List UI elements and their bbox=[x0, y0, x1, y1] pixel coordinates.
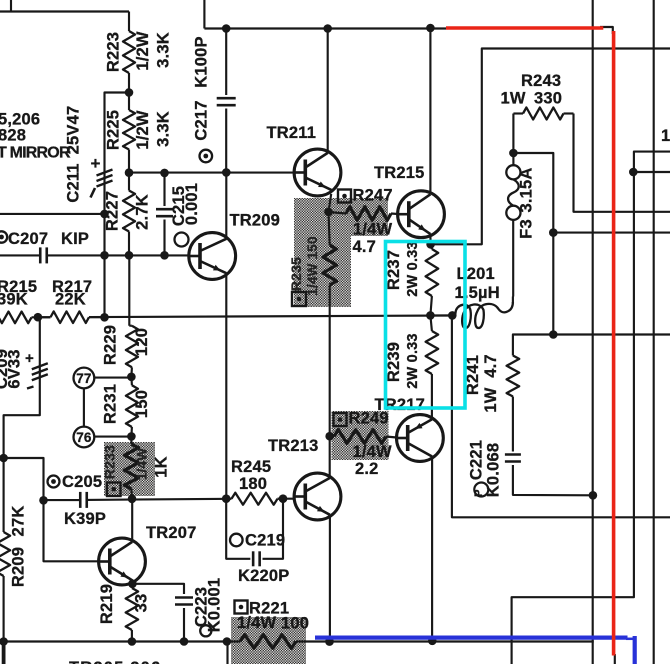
node dot R209 top / C205 branch bbox=[0, 454, 8, 463]
wire bottom emitter rail (y=641.5) bbox=[0, 640, 594, 642]
svg-text:R245: R245 bbox=[231, 458, 271, 476]
node dot R249 left bbox=[325, 432, 334, 441]
svg-text:K0.001: K0.001 bbox=[206, 578, 224, 632]
wire C223 bottom lead bbox=[183, 608, 185, 642]
wire C207 left lead bbox=[0, 254, 40, 256]
resistor R223 (1/2W 3.3K) bbox=[105, 31, 173, 93]
wire TR209 emitter drop bbox=[225, 274, 227, 499]
svg-text:C211: C211 bbox=[65, 163, 83, 202]
transistor TR211 bbox=[267, 124, 341, 196]
svg-text:TR213: TR213 bbox=[268, 437, 319, 455]
svg-text:K39P: K39P bbox=[64, 510, 106, 528]
svg-text:2.7K: 2.7K bbox=[134, 194, 152, 230]
svg-text:1/4W: 1/4W bbox=[135, 448, 150, 480]
wire TR207 base limb bbox=[44, 500, 99, 561]
wire fuse-top to bus bbox=[513, 153, 553, 335]
node dot y=255 x=104.5 bbox=[100, 251, 109, 260]
svg-text:TR211: TR211 bbox=[267, 124, 317, 142]
halftone highlight block for resistor R235 bbox=[294, 198, 388, 307]
resistor R217 (22K) bbox=[38, 278, 105, 323]
resistor R247 (1/4W 4.7) highlighted bbox=[329, 207, 398, 221]
text fragment 5,206 bbox=[0, 111, 40, 129]
text fragment T MIRROR bbox=[0, 145, 71, 162]
transistor TR209 bbox=[189, 212, 280, 280]
resistor R215 (39K) bbox=[0, 278, 37, 323]
svg-text:1.5µH: 1.5µH bbox=[455, 284, 500, 302]
node dot R231/R233 junction bbox=[127, 432, 136, 441]
svg-text:2W 0.33: 2W 0.33 bbox=[405, 241, 421, 296]
wire R241-C221 link bbox=[512, 397, 514, 452]
wire TR213 collector column bbox=[329, 316, 331, 477]
wire rail y=334.5 bbox=[553, 333, 670, 335]
text fragment TR205,206 bottom bbox=[69, 659, 161, 664]
wire base rail TR211 (y=172.5) bbox=[129, 172, 294, 174]
wire C205 branch bbox=[4, 458, 44, 500]
svg-text:TR209: TR209 bbox=[230, 212, 281, 230]
node dot bottom R219 bbox=[128, 637, 137, 646]
svg-text:R229: R229 bbox=[102, 325, 120, 365]
svg-text:R239: R239 bbox=[385, 342, 403, 382]
svg-text:150: 150 bbox=[133, 390, 151, 418]
svg-text:TR215: TR215 bbox=[374, 164, 425, 182]
node dot C221 to bus bbox=[589, 491, 598, 500]
svg-text:F3: F3 bbox=[518, 219, 536, 239]
wire R227-R229 link bbox=[128, 255, 130, 325]
resistor R243 (1W 330) bbox=[501, 72, 574, 153]
node dot TR215 collector rail bbox=[426, 24, 435, 33]
wire black stub below red vertical bbox=[614, 654, 616, 664]
wire right rail y=172 bbox=[633, 171, 670, 173]
fuse F3 (3.15A) bbox=[506, 153, 535, 239]
node dot bus y=334.5 bbox=[549, 330, 558, 339]
wire rail y=232.6 bbox=[553, 232, 670, 234]
halftone highlight block for resistor R221 bbox=[231, 617, 306, 664]
svg-text:180: 180 bbox=[239, 475, 267, 493]
node dot bottom x=3.6 bbox=[0, 637, 8, 646]
resistor R233 (1/4W 1K) highlighted bbox=[102, 436, 171, 498]
wire node76 link bbox=[95, 436, 132, 438]
node dot TR211 collector top bbox=[323, 24, 332, 33]
node dot x=633.9 y=172 bbox=[629, 168, 638, 177]
resistor R245 (180) bbox=[226, 458, 283, 505]
label R249 bbox=[334, 410, 393, 479]
svg-text:3.3K: 3.3K bbox=[155, 111, 173, 147]
connector node 76 bbox=[74, 427, 95, 448]
wire right rail y=151.6 with branch x=633.9 bbox=[512, 152, 670, 664]
wire R243 right lead rail bbox=[574, 114, 670, 212]
node dot bottom C223 bbox=[180, 637, 189, 646]
svg-text:+: + bbox=[91, 154, 101, 173]
wire stub below x=227 bbox=[226, 642, 228, 664]
resistor R229 (120) bbox=[102, 325, 152, 377]
highlight cyan box around R237/R239 bbox=[386, 242, 466, 409]
wire output rail top (y=48.5) bbox=[434, 49, 670, 245]
svg-text:K100P: K100P bbox=[192, 36, 210, 87]
svg-text:K220P: K220P bbox=[238, 567, 289, 585]
resistor R221 (1/4W 100) highlighted bbox=[235, 600, 310, 649]
svg-text:27K: 27K bbox=[10, 506, 28, 537]
svg-text:0.001: 0.001 bbox=[183, 183, 201, 225]
svg-text:+: + bbox=[25, 350, 34, 367]
svg-text:K0.068: K0.068 bbox=[485, 443, 503, 497]
node dot fuse/R243 junction bbox=[509, 149, 518, 158]
svg-text:2W 0.33: 2W 0.33 bbox=[405, 333, 421, 388]
wire TR215 collector bbox=[429, 28, 431, 194]
svg-text:828: 828 bbox=[0, 127, 26, 145]
wire TR213 emitter drop bbox=[329, 516, 331, 641]
svg-text:TR207: TR207 bbox=[146, 524, 197, 542]
halftone highlight block for resistor R233 bbox=[104, 442, 155, 496]
svg-text:1/2W: 1/2W bbox=[134, 110, 152, 150]
wire node77 link bbox=[94, 377, 132, 379]
svg-text:R243: R243 bbox=[521, 72, 561, 90]
wire TR207 emitter stub bbox=[132, 581, 134, 584]
svg-text:R237: R237 bbox=[385, 250, 403, 290]
svg-text:KIP: KIP bbox=[61, 230, 89, 248]
svg-text:R219: R219 bbox=[98, 584, 116, 624]
wire bus vertical B (x=653.7) bbox=[653, 0, 655, 664]
node dot R245 left / TR209 emitter bbox=[222, 494, 231, 503]
wire TR217 collector drop bbox=[431, 458, 433, 641]
wire TR217 emitter link (R239 bottom) bbox=[431, 374, 433, 418]
node dot bottom x=227 bbox=[223, 637, 232, 646]
halftone highlight block for resistor R249 bbox=[332, 411, 389, 460]
svg-text:C219: C219 bbox=[245, 532, 285, 550]
wire top rail to red trace bbox=[204, 0, 446, 29]
svg-text:R225: R225 bbox=[105, 110, 123, 150]
highlight blue trace bottom bbox=[315, 636, 635, 664]
svg-text:R233: R233 bbox=[102, 445, 118, 479]
svg-text:T MIRROR: T MIRROR bbox=[0, 145, 71, 162]
wire C223 top limb bbox=[132, 584, 184, 594]
capacitor C217 (K100P) bbox=[192, 29, 235, 173]
svg-text:1W: 1W bbox=[661, 127, 670, 145]
svg-text:1/2W: 1/2W bbox=[134, 31, 152, 71]
resistor R219 (33) bbox=[98, 584, 151, 630]
capacitor C221 (K0.068) bbox=[467, 440, 521, 497]
capacitor C205 (K39P) bbox=[48, 473, 107, 528]
svg-text:R223: R223 bbox=[105, 32, 123, 72]
wire output sense drop (x=451.9) bbox=[452, 315, 670, 517]
node dot C215 top bbox=[160, 169, 169, 178]
svg-text:77: 77 bbox=[76, 371, 91, 386]
svg-text:1W: 1W bbox=[482, 387, 500, 412]
resistor R249 (1/4W 2.2) highlighted bbox=[330, 430, 397, 444]
node dot x=104.5 y=317 bbox=[100, 313, 109, 322]
highlight red trace bbox=[446, 28, 614, 656]
node dot L201 branch bbox=[448, 311, 457, 320]
svg-text:100: 100 bbox=[281, 615, 309, 633]
transistor TR215 bbox=[374, 164, 444, 238]
svg-text:C221: C221 bbox=[467, 440, 485, 480]
svg-text:TR205,206: TR205,206 bbox=[69, 659, 161, 664]
svg-text:C217: C217 bbox=[192, 100, 210, 140]
wire bus vertical A (x=592.7) bbox=[592, 0, 594, 664]
node dot C205 left bbox=[39, 496, 48, 505]
wire mid feedback rail (y=316.8) bbox=[32, 316, 456, 318]
node dot y=255 x=129 (R227 bottom) bbox=[125, 251, 134, 260]
node dot y=255 x=164.5 (C215 bottom) bbox=[160, 251, 169, 260]
wire C221 bottom link bbox=[513, 465, 593, 495]
svg-text:120: 120 bbox=[133, 328, 151, 356]
text fragment 1W right edge bbox=[661, 127, 670, 145]
wire mid node to L201 bbox=[430, 314, 455, 316]
wire top-left supply rail bbox=[0, 0, 129, 31]
node dot bottom TR213 emitter bbox=[325, 637, 334, 646]
svg-text:R249: R249 bbox=[349, 410, 389, 428]
inductor L201 (1.5uH) bbox=[452, 265, 513, 328]
capacitor C211 (25V47) electrolytic bbox=[65, 106, 113, 203]
resistor R227 (2.7K) bbox=[104, 173, 152, 256]
svg-text:3.3K: 3.3K bbox=[155, 32, 173, 68]
resistor R239 (2W 0.33) bbox=[385, 315, 438, 388]
capacitor C219 (K220P) bbox=[226, 499, 289, 585]
svg-text:L201: L201 bbox=[457, 265, 495, 283]
node dot bus y=232.6 bbox=[549, 228, 558, 237]
wire R219 leads bbox=[131, 584, 133, 642]
svg-text:22K: 22K bbox=[55, 291, 86, 309]
node dot C217 top bbox=[222, 24, 231, 33]
resistor R209 (27K) bbox=[0, 506, 27, 588]
svg-text:C207: C207 bbox=[8, 230, 48, 248]
svg-text:2.2: 2.2 bbox=[355, 460, 379, 478]
resistor R241 (1W 4.7) bbox=[464, 354, 519, 412]
svg-text:C205: C205 bbox=[62, 473, 102, 491]
node dot R245 right bbox=[279, 494, 288, 503]
wire 77-76 link bbox=[83, 388, 85, 426]
text fragment 828 bbox=[0, 127, 26, 145]
svg-text:4.7: 4.7 bbox=[482, 354, 500, 378]
svg-text:4.7: 4.7 bbox=[353, 238, 377, 256]
svg-text:R231: R231 bbox=[102, 384, 120, 424]
wire TR211 emitter stub bbox=[329, 194, 332, 212]
svg-text:R235: R235 bbox=[288, 257, 304, 291]
wire TR207 collector bbox=[131, 499, 133, 541]
svg-text:1/4W: 1/4W bbox=[353, 221, 393, 239]
resistor R231 (150) bbox=[102, 377, 152, 437]
node dot R237/R239 junction bbox=[426, 311, 435, 320]
wire left stub y=214 bbox=[0, 213, 105, 215]
wire TR211 collector bbox=[327, 29, 329, 153]
wire C211 bypass bbox=[105, 93, 130, 318]
svg-text:39K: 39K bbox=[0, 291, 28, 309]
svg-text:P: P bbox=[473, 490, 485, 497]
svg-text:1K: 1K bbox=[153, 456, 171, 478]
svg-text:6V33: 6V33 bbox=[6, 349, 24, 388]
resistor R237 (2W 0.33) bbox=[385, 241, 438, 315]
wire TR215 emitter stub bbox=[429, 236, 431, 244]
svg-text:R227: R227 bbox=[104, 191, 122, 231]
resistor R225 (1/2W 3.3K) bbox=[105, 93, 173, 173]
node dot R237 top bbox=[426, 240, 435, 249]
wire R209 column bbox=[3, 458, 5, 664]
svg-text:1W: 1W bbox=[501, 90, 526, 108]
wire base rail TR209 (y=255.4) bbox=[47, 254, 189, 256]
wire TR209 collector drop bbox=[225, 172, 227, 238]
transistor TR207 bbox=[99, 524, 197, 585]
transistor TR213 bbox=[268, 437, 341, 520]
node dot R233 bottom / TR207 collector bbox=[128, 495, 137, 504]
svg-text:33: 33 bbox=[133, 594, 151, 613]
node dot C217 bottom / TR209 collector bbox=[222, 168, 231, 177]
node dot TR207 emitter / R219 top bbox=[128, 580, 137, 589]
node dot R223/R225 junction bbox=[125, 88, 134, 97]
svg-text:330: 330 bbox=[534, 90, 562, 108]
svg-text:76: 76 bbox=[76, 430, 92, 445]
svg-text:R209: R209 bbox=[10, 547, 28, 587]
node dot R229/R231 junction bbox=[127, 373, 136, 382]
label R247 bbox=[338, 187, 393, 257]
capacitor C207 (KIP) bbox=[0, 230, 89, 263]
wire R241 top lead bbox=[513, 335, 553, 356]
svg-text:R247: R247 bbox=[353, 187, 393, 205]
transistor TR217 (PNP) bbox=[375, 396, 444, 461]
capacitor C209 (6V33) electrolytic bbox=[0, 349, 48, 389]
svg-text:1/4W 150: 1/4W 150 bbox=[305, 236, 320, 295]
svg-text:1/4W: 1/4W bbox=[237, 614, 277, 632]
wire L201 to fuse bbox=[512, 220, 514, 303]
capacitor C215 (0.001) bbox=[156, 173, 201, 255]
capacitor C223 (K0.001) bbox=[175, 578, 224, 637]
wire C209 limb bbox=[4, 317, 40, 458]
node dot R215/R217/C209 bbox=[34, 313, 43, 322]
node dot R225 bottom bbox=[125, 168, 134, 177]
svg-text:1/4W: 1/4W bbox=[353, 443, 393, 461]
node dot TR211 emitter / R247 / R235 bbox=[324, 208, 333, 217]
svg-text:3.15A: 3.15A bbox=[518, 167, 536, 212]
node dot C211 lower bbox=[100, 210, 109, 219]
node dot bottom TR217 collector bbox=[428, 637, 437, 646]
connector node 77 bbox=[74, 368, 95, 389]
resistor R235 (1/4W 150) highlighted bbox=[288, 212, 337, 316]
wire black stub under red corner bbox=[600, 27, 613, 34]
wire base rail TR207/TR213 (y=498.9) bbox=[44, 499, 295, 500]
